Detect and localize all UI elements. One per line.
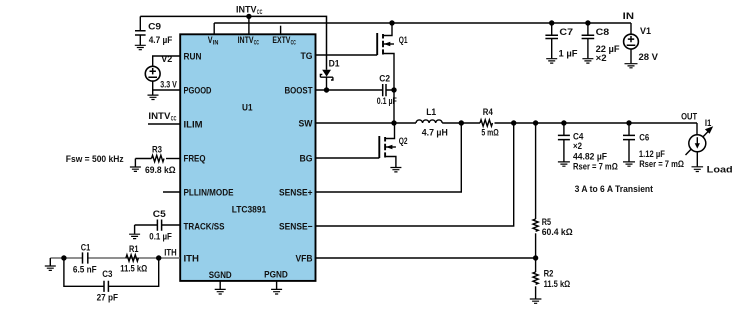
svg-text:C8: C8 [596,27,610,38]
current source I1 [696,123,698,135]
wire INTVcc riser to pin [248,16,250,34]
svg-text:U1: U1 [242,103,253,114]
resistor R2 [535,258,537,272]
capacitor C8 [587,23,589,35]
svg-text:ITH: ITH [184,254,200,265]
svg-text:PGOOD: PGOOD [184,86,212,97]
node SENSE- tap [511,120,516,125]
svg-text:C7: C7 [559,27,573,38]
svg-text:3.3 V: 3.3 V [160,80,177,91]
svg-text:I1: I1 [705,118,712,129]
ground R3 [130,167,141,171]
svg-text:D1: D1 [329,58,341,69]
wire FREQ ground stub [134,159,136,167]
ground C9 [135,45,146,49]
svg-text:LTC3891: LTC3891 [232,205,267,216]
svg-text:R3: R3 [152,144,162,155]
voltage source V1 [630,23,632,34]
transistor Q2 [378,136,380,158]
svg-text:R1: R1 [129,244,139,255]
svg-text:IN: IN [213,40,219,47]
wire BOOST node to SW node [393,90,395,123]
svg-text:TG: TG [301,51,313,62]
svg-text:INTV: INTV [238,35,254,46]
svg-text:SGND: SGND [209,270,232,281]
wire SENSE+ [315,123,462,192]
ground C1 [45,266,56,270]
svg-text:3 A to 6 A Transient: 3 A to 6 A Transient [575,184,654,195]
svg-text:CC: CC [254,40,259,47]
svg-text:Q2: Q2 [399,136,408,147]
wire C7 C8 V1 rail taps [549,20,554,25]
wire L1 to R4 [442,122,480,124]
wire Vin rail [214,22,631,24]
svg-text:ILIM: ILIM [184,120,203,131]
node VFB divider [533,255,538,260]
node BOOST-D1 [324,87,329,92]
node ITH left [61,255,66,260]
capacitor C5 [135,224,180,226]
svg-text:Load: Load [707,165,733,176]
wire BG [315,157,380,159]
svg-text:11.5 kΩ: 11.5 kΩ [544,279,571,290]
ground I1 [692,167,704,172]
node R5 tap [533,120,538,125]
wire VFB [315,257,536,259]
wire TG [315,54,377,56]
svg-text:C1: C1 [81,243,91,254]
capacitor C9 [139,16,141,30]
svg-text:SENSE−: SENSE− [279,222,313,233]
svg-text:R2: R2 [544,268,554,279]
svg-text:RUN: RUN [184,52,202,63]
svg-text:Q1: Q1 [399,35,408,46]
svg-text:Rser = 7 mΩ: Rser = 7 mΩ [573,162,618,173]
ground C5 [129,234,140,238]
wire BOOST [315,89,394,91]
ground PGND [276,281,278,289]
svg-text:VFB: VFB [296,254,313,265]
ground C6 [623,162,635,166]
svg-text:C5: C5 [153,209,167,220]
ground C8 [582,59,593,63]
node BOOST-C2 [391,87,396,92]
svg-text:0.1 µF: 0.1 µF [149,232,172,243]
svg-text:C9: C9 [148,22,161,33]
svg-text:V1: V1 [640,26,652,37]
capacitor C4 [563,123,565,135]
svg-text:PLLIN/MODE: PLLIN/MODE [184,188,234,199]
svg-text:TRACK/SS: TRACK/SS [184,222,225,233]
inductor L1 [416,120,442,123]
svg-text:1 µF: 1 µF [559,49,578,60]
node SENSE+ tap [459,120,464,125]
svg-text:11.5 kΩ: 11.5 kΩ [120,264,147,275]
svg-text:ITH: ITH [164,248,177,259]
wire TRACK/SS ground stub [134,225,136,234]
wire SW to L1 [315,122,416,124]
wire V2 to PGOOD and ground [153,81,180,95]
resistor R1 [126,255,139,261]
svg-text:EXTV: EXTV [272,35,290,46]
resistor R4 [480,120,492,126]
svg-text:BOOST: BOOST [285,86,313,97]
svg-text:Rser = 7 mΩ: Rser = 7 mΩ [639,159,684,170]
capacitor C2 [383,84,386,96]
svg-text:SW: SW [299,119,313,130]
wire INTVcc rail [140,16,326,69]
ground V1 [625,64,638,68]
capacitor C7 [551,23,553,35]
svg-text:FREQ: FREQ [184,154,206,165]
ground SGND [219,281,221,289]
wire EXTVcc stub [280,26,282,34]
ground Q2 [390,168,401,172]
svg-text:IN: IN [623,11,634,22]
node INTVcc top [246,14,251,19]
ground C7 [546,59,557,63]
node C4 tap [561,120,566,125]
wire ILIM [148,123,180,125]
svg-text:OUT: OUT [681,112,697,123]
svg-text:SENSE+: SENSE+ [279,188,313,199]
svg-text:INTV: INTV [236,5,257,16]
node Q1 drain at Vin rail [389,20,394,25]
svg-text:27 pF: 27 pF [97,293,119,304]
ground C4 [558,162,570,166]
node ITH right [156,255,161,260]
svg-text:CC: CC [171,116,177,123]
svg-text:×2: ×2 [596,53,607,64]
svg-text:4.7 µF: 4.7 µF [149,35,173,46]
voltage source V2 [145,66,160,81]
wire VIN pin riser [213,23,215,34]
svg-text:CC: CC [291,40,296,47]
diode D1 [322,70,331,77]
svg-text:28 V: 28 V [639,52,659,63]
svg-text:4.7 µH: 4.7 µH [422,128,448,139]
op-amp U1 [180,34,315,281]
wire R4 to OUT corner [495,122,698,124]
svg-text:6.5 nF: 6.5 nF [73,265,97,276]
svg-text:CC: CC [257,9,263,16]
svg-text:69.8 kΩ: 69.8 kΩ [145,165,176,176]
wire PLLIN/MODE stub [163,191,180,193]
wire ITH net [50,257,180,259]
capacitor C6 [628,123,630,135]
capacitor C3 branch [64,258,159,286]
svg-text:C6: C6 [639,132,649,143]
svg-text:R4: R4 [483,107,494,118]
node SW [391,120,396,125]
svg-text:INTV: INTV [148,111,171,122]
wire SENSE- [315,123,514,226]
resistor R5 [535,123,537,219]
svg-text:C3: C3 [102,269,112,280]
svg-text:PGND: PGND [264,270,288,281]
ground V2 [148,95,159,99]
wire ITH ground stub [49,258,51,266]
node C6 tap [626,120,631,125]
transistor Q1 [376,33,378,55]
svg-text:C2: C2 [379,74,390,85]
svg-text:5 mΩ: 5 mΩ [481,128,499,139]
resistor R3 [135,158,151,160]
svg-text:BG: BG [300,154,313,165]
capacitor C1 [83,252,88,263]
svg-text:60.4 kΩ: 60.4 kΩ [542,227,573,238]
ground R2 [530,299,542,303]
svg-text:L1: L1 [426,107,437,118]
wire V2 to RUN [153,56,180,66]
svg-text:Fsw = 500 kHz: Fsw = 500 kHz [66,154,124,165]
